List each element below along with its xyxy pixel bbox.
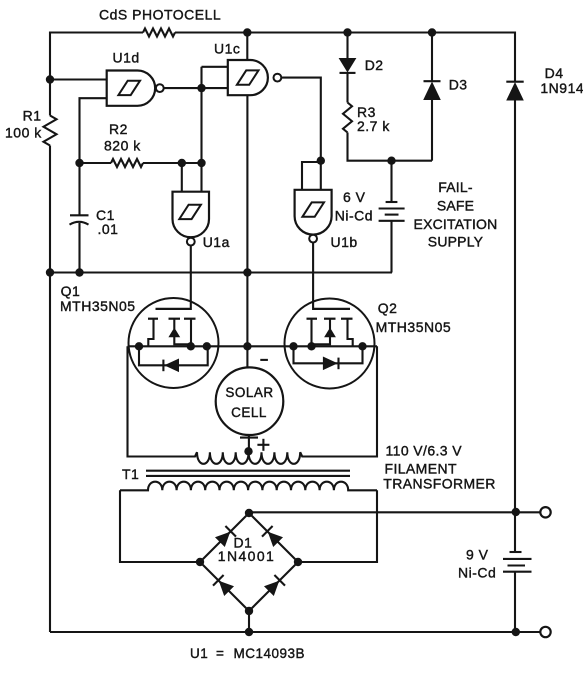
svg-text:Ni-Cd: Ni-Cd [335, 208, 373, 224]
wire Q2 gate lead [313, 308, 350, 310]
node R2-left [75, 159, 83, 167]
wire mosfet rail [128, 345, 378, 347]
svg-text:T1: T1 [122, 466, 139, 482]
node solar-minus [243, 342, 251, 350]
wire U1c output elbow [281, 78, 321, 161]
svg-text:CdS PHOTOCELL: CdS PHOTOCELL [99, 7, 221, 23]
svg-text:100 k: 100 k [5, 125, 42, 141]
op-amp U1a nand gate [173, 192, 230, 250]
node Q1 source [187, 342, 195, 350]
node Q1 body-right [203, 342, 211, 350]
node R2-row/U1a-inB [197, 159, 205, 167]
transistor Q1 channel [148, 319, 196, 347]
wire bridge edges [200, 513, 298, 611]
wire secondary left down [120, 490, 200, 562]
wire top rail right segment [175, 31, 515, 33]
node right-rail/output-bottom [512, 628, 520, 636]
node mid-rail/C1 [75, 268, 83, 276]
svg-text:Q2: Q2 [378, 300, 398, 316]
svg-text:110 V/6.3 V: 110 V/6.3 V [386, 443, 463, 459]
svg-text:EXCITATION: EXCITATION [414, 216, 498, 232]
capacitor C1 [70, 163, 119, 273]
diode D4 [506, 32, 583, 101]
wire secondary right down [298, 490, 377, 562]
node bridge right [294, 558, 302, 566]
svg-text:D4: D4 [545, 65, 564, 81]
wire bridge bottom stub [248, 611, 250, 632]
wire U1b input stubs [302, 161, 321, 190]
diode D1 bottom-left [213, 575, 233, 595]
svg-text:FAIL-: FAIL- [438, 179, 473, 195]
wire solar top lead [246, 346, 248, 368]
resistor R2 [104, 121, 143, 167]
wire U1b output [312, 243, 314, 311]
transistor Q2 channel [307, 319, 353, 347]
transformer T1 core [122, 466, 350, 482]
resistor CdS PHOTOCELL [99, 7, 221, 37]
svg-text:U1b: U1b [331, 234, 358, 250]
wire center vertical [246, 95, 248, 346]
wire U1a input stub A [181, 163, 183, 192]
wire right rail lower [514, 572, 516, 632]
svg-text:D2: D2 [365, 57, 384, 73]
svg-text:MTH35N05: MTH35N05 [60, 298, 136, 314]
wire U1d-out to U1c elbow [202, 67, 228, 88]
terminal output minus [540, 627, 550, 637]
resistor R1 [5, 108, 57, 146]
transistor Q1 circle [60, 283, 219, 388]
wire U1c top feed [246, 33, 248, 61]
node Q2 source [307, 342, 315, 350]
node Q2 body-left [289, 342, 297, 350]
node failsafe-top [387, 157, 395, 165]
diode D1 top-right [262, 526, 282, 546]
wire U1d-out down to R2 row [200, 88, 202, 192]
wire R2 row left [80, 162, 112, 164]
node left-rail/U1d-input [46, 75, 54, 83]
svg-text:=: = [216, 646, 224, 661]
diode D2 [340, 33, 384, 103]
svg-text:TRANSFORMER: TRANSFORMER [383, 476, 496, 492]
svg-text:U1d: U1d [113, 50, 140, 66]
wire bottom rail [50, 631, 541, 633]
wire U1d input A [50, 78, 107, 80]
svg-text:1N914: 1N914 [540, 80, 583, 96]
wire U1d input B [80, 98, 107, 163]
label fail-safe excitation supply [414, 179, 498, 250]
svg-text:MC14093B: MC14093B [234, 646, 306, 661]
node U1b-input [317, 157, 325, 165]
wire R3 bottom elbow [348, 133, 433, 161]
wire mid rail [50, 271, 392, 273]
wire left rail upper [49, 32, 51, 116]
label plus [257, 439, 269, 451]
svg-text:U1: U1 [190, 646, 208, 661]
transistor Q2 circle [285, 299, 452, 389]
node U1d-output [197, 84, 205, 92]
node bridge left [196, 558, 204, 566]
node top-rail/D2 [343, 28, 351, 36]
wire solar bottom lead [240, 435, 258, 451]
battery 9V Ni-Cd [458, 547, 532, 581]
label D1 1N4001 [218, 535, 275, 565]
node top-rail/D3 [428, 28, 436, 36]
wire right rail upper [514, 100, 516, 552]
svg-text:R1: R1 [23, 108, 42, 124]
diode D1 top-left [216, 526, 236, 546]
diode Q2 body diode [294, 346, 363, 369]
svg-text:D3: D3 [449, 77, 468, 93]
node right-rail/output-top [512, 508, 520, 516]
svg-text:MTH35N05: MTH35N05 [376, 319, 452, 335]
svg-text:SAFE: SAFE [437, 198, 474, 214]
svg-text:U1a: U1a [203, 234, 230, 250]
node left-rail/mid-rail [46, 268, 54, 276]
svg-text:9 V: 9 V [466, 547, 489, 563]
inductor T1 secondary [120, 482, 377, 491]
node bridge top [245, 509, 253, 517]
label U1 = MC14093B [190, 646, 305, 661]
node mid-rail/center [243, 268, 251, 276]
diode Q1 body diode [139, 346, 208, 371]
svg-text:1N4001: 1N4001 [218, 548, 275, 564]
node bridge bottom [245, 607, 253, 615]
svg-text:U1c: U1c [214, 41, 240, 57]
resistor R3 [343, 103, 390, 135]
label minus [260, 359, 268, 361]
svg-text:CELL: CELL [231, 405, 267, 420]
svg-text:SOLAR: SOLAR [225, 385, 273, 400]
svg-text:FILAMENT: FILAMENT [385, 461, 457, 477]
diode D3 [424, 33, 468, 161]
op-amp U1c nand gate [214, 41, 281, 96]
wire U1d output [164, 87, 202, 89]
inductor T1 primary [128, 452, 378, 464]
svg-text:820 k: 820 k [104, 138, 141, 154]
wire Q1 drain down [126, 346, 128, 457]
wire Q1 gate lead [156, 308, 191, 310]
node Q2 body-right [358, 342, 366, 350]
battery 6V Ni-Cd [335, 161, 405, 273]
svg-text:2.7 k: 2.7 k [357, 118, 390, 134]
node top-rail/U1c [243, 28, 251, 36]
solar cell [216, 367, 284, 435]
svg-text:R2: R2 [109, 121, 128, 137]
wire dc plus rail [249, 511, 541, 513]
svg-text:Q1: Q1 [61, 283, 81, 299]
wire Q2 drain down [376, 346, 378, 457]
svg-text:.01: .01 [98, 221, 119, 237]
wire R2 row right [143, 162, 202, 164]
op-amp U1d nand gate [107, 50, 164, 106]
svg-text:SUPPLY: SUPPLY [428, 234, 484, 250]
node R2-row/U1a-inA [178, 159, 186, 167]
label transformer [383, 443, 496, 492]
wire left rail lower [49, 146, 51, 633]
op-amp U1b nand gate [295, 190, 358, 250]
svg-text:Ni-Cd: Ni-Cd [458, 565, 496, 581]
svg-text:6 V: 6 V [343, 189, 366, 205]
diode D1 bottom-right [265, 575, 285, 595]
terminal output plus [540, 507, 550, 517]
wire top rail left segment [50, 31, 143, 33]
node bottom-rail/bridge [245, 628, 253, 636]
node solar-plus [244, 447, 252, 455]
wire U1a output [190, 246, 192, 311]
node Q1 body-left [135, 342, 143, 350]
